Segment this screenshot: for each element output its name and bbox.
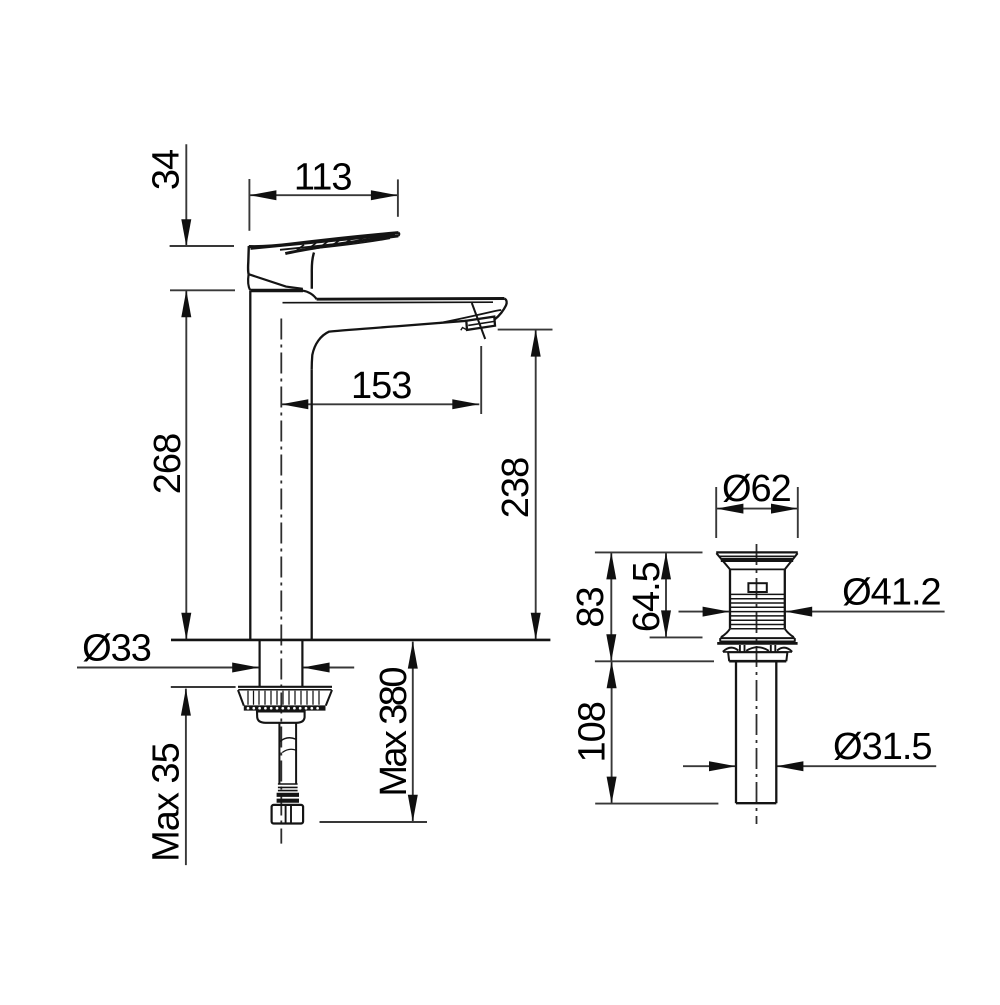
svg-text:34: 34: [146, 149, 188, 190]
hose ribbed end: [277, 784, 299, 801]
extension line O62 left: [715, 487, 717, 538]
svg-text:83: 83: [570, 587, 612, 627]
dimension 153 line: [281, 399, 479, 409]
mounting flange: [238, 687, 332, 706]
extension tick spout outlet: [498, 329, 553, 331]
extension tick body top: [170, 289, 235, 291]
dimension 108 line: [607, 661, 617, 803]
extension tick drain top: [595, 551, 703, 553]
svg-text:Max 380: Max 380: [373, 668, 415, 797]
extension tick 64.5 bottom: [650, 636, 703, 638]
flange serrated ring: [244, 707, 326, 710]
dimension 113 line: [249, 190, 398, 200]
lock nut: [257, 711, 305, 722]
drain hex nut: [728, 652, 787, 661]
extension line O62 right: [797, 487, 799, 538]
svg-text:Ø62: Ø62: [722, 468, 791, 510]
aerator: [461, 303, 495, 339]
threaded shank: [260, 640, 303, 686]
extension line 113 right: [397, 179, 399, 216]
drain centerline: [756, 544, 758, 824]
svg-text:64.5: 64.5: [626, 562, 668, 632]
extension tick handle top: [170, 245, 234, 247]
extension tick max380 bottom: [320, 821, 428, 823]
hose connector nut: [272, 805, 304, 824]
svg-text:153: 153: [351, 365, 411, 407]
extension line 113 left: [248, 179, 250, 231]
dimension 238 line: [531, 330, 541, 640]
dimension 268 line: [181, 290, 191, 640]
dimension 83 line: [606, 552, 616, 661]
extension tick 83-108: [595, 660, 714, 662]
svg-text:Max 35: Max 35: [145, 743, 187, 862]
drain flange top: [716, 552, 798, 569]
spout deck: [283, 299, 507, 324]
drain flange plate: [717, 638, 797, 643]
faucet lever handle: [249, 233, 400, 254]
drain body: [730, 569, 785, 628]
extension tick mounting flange top: [171, 686, 236, 688]
drain gasket: [723, 645, 792, 652]
faucet body: [248, 246, 317, 299]
dimension 64.5 line: [661, 552, 671, 637]
mounting base line: [171, 639, 550, 642]
dimension O31.5 lines: [683, 761, 936, 771]
svg-text:Ø31.5: Ø31.5: [833, 726, 932, 768]
drain tailpipe: [736, 661, 776, 803]
drain dimension 62: [716, 504, 798, 514]
faucet centerline: [280, 319, 282, 844]
drain thread lines: [731, 594, 785, 628]
dimension Max 35 line: [181, 689, 191, 866]
dimension 34 line: [181, 144, 191, 246]
extension tick 108 bottom: [595, 803, 718, 805]
dimension O41.2 lines: [679, 607, 945, 617]
svg-text:238: 238: [495, 458, 537, 518]
extension line 153 right: [480, 346, 482, 414]
flexible hose: [279, 723, 296, 784]
spout underside: [312, 321, 467, 369]
svg-text:113: 113: [294, 157, 352, 199]
svg-text:Ø41.2: Ø41.2: [842, 572, 941, 614]
dimension Max 380 line: [408, 642, 418, 822]
svg-text:268: 268: [147, 434, 189, 494]
dimension O33 lines: [77, 663, 354, 673]
svg-text:108: 108: [572, 702, 614, 762]
svg-text:Ø33: Ø33: [82, 628, 151, 670]
drain lower flare: [721, 629, 794, 637]
faucet column: [250, 291, 311, 640]
